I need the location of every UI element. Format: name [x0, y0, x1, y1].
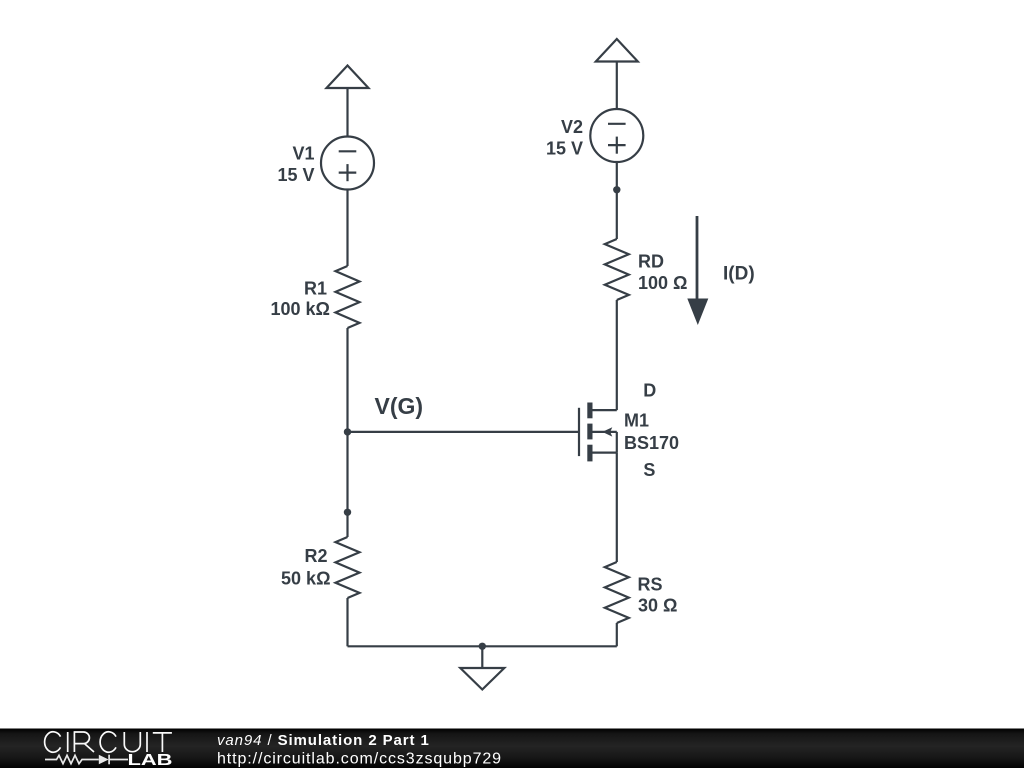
svg-text:van94 / Simulation 2 Part 1: van94 / Simulation 2 Part 1: [217, 732, 430, 749]
node dot below V2: [613, 186, 620, 193]
resistor R2: [336, 537, 360, 598]
node dot above R2: [344, 509, 351, 516]
wire V2 bottom to RD top: [616, 162, 618, 239]
svg-text:V(G): V(G): [375, 393, 424, 419]
svg-text:V2: V2: [561, 117, 583, 137]
wire R1 bottom to node V(G): [346, 328, 348, 432]
svg-text:LAB: LAB: [128, 752, 173, 768]
voltage source V1: [321, 137, 374, 190]
CircuitLab logo: CIRCUIT wordmark: [45, 732, 172, 752]
resistor R1: [336, 266, 360, 328]
node dot at V(G) junction: [344, 428, 351, 435]
svg-text:V1: V1: [292, 144, 314, 164]
resistor RD: [605, 239, 629, 300]
wire RD bottom to drain of M1: [616, 300, 618, 410]
ground rail wire: [348, 645, 617, 647]
power VCC symbol (right, V2 branch): [596, 39, 638, 109]
svg-text:I(D): I(D): [723, 264, 755, 285]
svg-text:RS: RS: [638, 574, 663, 594]
wire source of M1 to RS top: [616, 453, 618, 562]
wire node V(G) to gate of M1: [348, 431, 580, 433]
wire node V(G) down to R2 node: [346, 432, 348, 537]
svg-text:15 V: 15 V: [546, 138, 583, 158]
transistor M1 (NMOS BS170): [579, 403, 617, 462]
wire RS bottom to ground rail: [616, 623, 618, 646]
CircuitLab logo: resistor-diode squiggle: [45, 755, 128, 765]
svg-text:100 kΩ: 100 kΩ: [271, 299, 330, 319]
power VCC symbol (left, V1 branch): [327, 66, 369, 137]
svg-text:S: S: [643, 460, 655, 480]
current annotation arrow I(D): [687, 216, 708, 325]
voltage source V2: [590, 109, 643, 162]
node dot at ground junction: [479, 643, 486, 650]
svg-text:R1: R1: [304, 278, 327, 298]
svg-text:50 kΩ: 50 kΩ: [281, 568, 330, 588]
footer bar: [0, 729, 1024, 768]
svg-text:BS170: BS170: [624, 433, 679, 453]
svg-text:http://circuitlab.com/ccs3zsqu: http://circuitlab.com/ccs3zsqubp729: [217, 751, 502, 768]
svg-text:RD: RD: [638, 252, 664, 272]
wire V1 bottom to R1 top: [346, 190, 348, 267]
resistor RS: [605, 562, 629, 623]
svg-text:15 V: 15 V: [277, 165, 314, 185]
svg-text:M1: M1: [624, 411, 649, 431]
svg-text:D: D: [643, 381, 656, 401]
svg-text:30 Ω: 30 Ω: [638, 596, 677, 616]
svg-text:100 Ω: 100 Ω: [638, 273, 687, 293]
svg-text:R2: R2: [304, 546, 327, 566]
wire R2 bottom to ground rail: [346, 598, 348, 646]
ground symbol: [460, 646, 504, 689]
